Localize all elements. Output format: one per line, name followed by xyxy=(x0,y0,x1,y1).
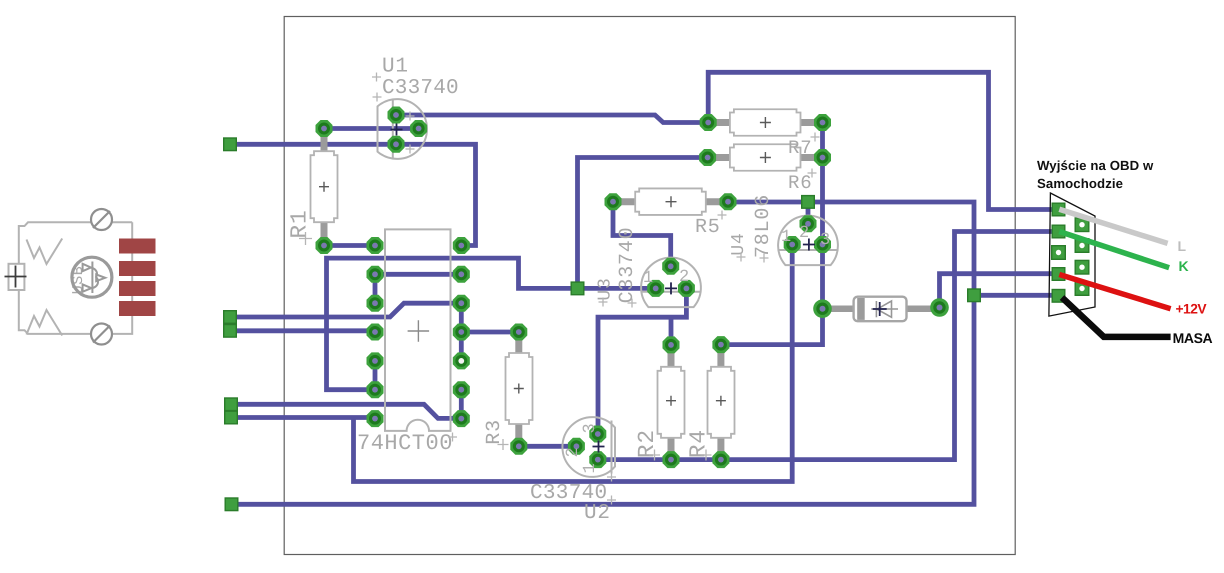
smd square pads node pair lower-left xyxy=(225,398,238,411)
resistor R1 body xyxy=(311,134,338,240)
resistor R7 body xyxy=(712,109,818,136)
pads 74HCT00 left column pins 1-7 xyxy=(367,237,384,254)
smd square pads node pair mid-left xyxy=(224,311,237,324)
wire net K: U2 pin1, R2/R4 bottoms to OBD pin K xyxy=(598,232,1059,460)
wire 74HCT00 right rows3-5 xyxy=(459,303,464,361)
U2 pin numbers xyxy=(564,422,600,473)
wire net L: U1 pin1 to R7 left, up over top to OBD pin L xyxy=(396,72,1059,209)
pad U2 pin2 xyxy=(568,438,585,455)
origin R5 xyxy=(666,196,677,207)
wire K (green) xyxy=(1059,232,1169,268)
diode D1 body xyxy=(826,297,935,322)
pad D1 anode xyxy=(813,299,832,318)
wire MASA (black) xyxy=(1062,298,1171,337)
USB shield tab xyxy=(9,264,25,290)
wire net R6-left to mid square pad xyxy=(578,158,708,289)
pad R3 bottom xyxy=(510,438,527,455)
smd square pad node USB-D- xyxy=(224,138,237,151)
pad U2 pin1 xyxy=(589,451,606,468)
svg-text:1: 1 xyxy=(781,228,792,247)
wire 74HCT00 left rows5-6 xyxy=(373,361,378,390)
svg-text:74HCT00: 74HCT00 xyxy=(357,431,453,456)
pad R6 left xyxy=(699,149,716,166)
svg-text:R1: R1 xyxy=(287,209,313,238)
origin U1 xyxy=(391,124,403,136)
U4 pin numbers xyxy=(781,224,831,250)
pad U3 pin1 xyxy=(647,280,664,297)
pad U4 pin3 xyxy=(814,236,831,253)
pad U2 pin3 xyxy=(589,426,606,443)
wire square pad to 74HCT00 left row4 xyxy=(230,328,375,333)
resistor R3 body xyxy=(506,336,533,441)
small text-anchor crosses (light gray) xyxy=(299,73,820,505)
resistor R2 body xyxy=(658,350,685,454)
svg-text:1: 1 xyxy=(643,269,654,288)
wire +12V (red) xyxy=(1059,275,1170,309)
OBD header pads left column xyxy=(1052,203,1065,216)
wire 74HCT00 right rows6-7 xyxy=(459,390,464,419)
origin R1 xyxy=(319,182,329,192)
smd square pad node gate-mid xyxy=(571,282,584,295)
origin D1 xyxy=(873,302,887,316)
transistor U1 outline (TO-92 flat left) xyxy=(378,99,427,159)
svg-text:C33740: C33740 xyxy=(382,77,459,100)
smd square pad node GND right xyxy=(968,289,981,302)
USB pad 4 xyxy=(119,301,156,316)
smd square pad node GND left xyxy=(225,498,238,511)
USB pad 2 xyxy=(119,261,156,276)
pad U1 pin3 xyxy=(388,136,405,153)
resistor R6 body xyxy=(712,144,818,171)
pad R7 left xyxy=(700,114,717,131)
COMPONENT SILKSCREEN xyxy=(311,99,936,477)
USB pad 3 xyxy=(119,281,156,296)
wire net MASA: square pad along bottom, up right side to R5 right xyxy=(232,202,1059,504)
svg-text:U2: U2 xyxy=(584,502,611,525)
wire diode cathode to OBD +12V pin xyxy=(940,274,1059,308)
wire R5 left to U3 pin2 xyxy=(613,202,671,267)
smd square pad node U4-in xyxy=(802,196,815,209)
origin R4 xyxy=(716,396,726,406)
pad R1 top xyxy=(316,120,333,137)
wire R1 top to U1 pin2 xyxy=(324,126,419,131)
resistor R5 body xyxy=(617,188,724,215)
USB CONNECTOR FOOTPRINT xyxy=(5,209,156,345)
pad U1 pin2 xyxy=(410,120,427,137)
wire U3 pin3 to R2 top and U2 pin3 xyxy=(598,288,686,434)
svg-text:Wyjście na OBD w: Wyjście na OBD w xyxy=(1037,158,1154,173)
svg-text:2: 2 xyxy=(564,446,583,457)
wire 74HCT00 right row4 to R3 top xyxy=(461,330,519,335)
component origin crosses (gray, resistors and IC) xyxy=(319,117,771,406)
USB silk chevron bottom xyxy=(27,310,63,336)
svg-text:R5: R5 xyxy=(695,216,721,239)
pad R4 bottom xyxy=(712,451,729,468)
IC 74HCT00 outline xyxy=(385,229,451,431)
svg-text:R7: R7 xyxy=(788,137,812,159)
transistor U4 outline (TO-92 flat bottom) xyxy=(778,216,838,265)
pad R5 left xyxy=(605,193,622,210)
wire net 12V rail: R4 top up through diode anode, U4 pin3, R6/R7 right xyxy=(721,123,823,345)
USB connector body outline xyxy=(19,222,132,334)
title text xyxy=(1037,158,1154,191)
USB pad 1 xyxy=(119,239,156,254)
svg-text:+12V: +12V xyxy=(1176,302,1208,317)
transistor U2 outline (TO-92 flat right) xyxy=(562,417,615,477)
svg-text:Samochodzie: Samochodzie xyxy=(1037,176,1123,191)
origin R7 xyxy=(760,117,771,128)
USB mounting hole top xyxy=(91,209,112,230)
OBD connector outline xyxy=(1049,193,1095,316)
pad R7 right xyxy=(814,114,831,131)
pad R3 top xyxy=(510,324,527,341)
origin U3 xyxy=(665,282,677,294)
U3 pin numbers xyxy=(643,268,690,288)
origin R3 xyxy=(514,384,524,394)
TRACES xyxy=(230,72,1059,504)
pad R2 bottom xyxy=(663,451,680,468)
pad D1 cathode xyxy=(930,298,949,317)
svg-text:K: K xyxy=(1179,258,1189,274)
svg-text:R2: R2 xyxy=(634,429,660,458)
svg-text:78L06: 78L06 xyxy=(752,194,775,258)
pad R1 bottom xyxy=(316,237,333,254)
pad U4 pin1 xyxy=(784,236,801,253)
svg-text:3: 3 xyxy=(820,231,831,250)
wire square pad to 74HCT00 right row3 xyxy=(230,303,461,317)
svg-text:3: 3 xyxy=(581,422,600,433)
origin 74HCT00 (large) xyxy=(408,320,430,342)
svg-text:U3: U3 xyxy=(596,277,616,300)
pad U4 pin2 xyxy=(800,215,817,232)
USB silk chevron top xyxy=(27,239,63,265)
svg-text:2: 2 xyxy=(679,268,690,287)
origin R2 xyxy=(666,396,676,406)
OBD CONNECTOR AREA xyxy=(1037,158,1213,346)
transistor U3 outline (TO-92 flat bottom) xyxy=(641,258,701,307)
USB logo xyxy=(72,257,112,297)
pad R2 top xyxy=(663,336,680,353)
wire net: square pads to 74HCT00 left row7 and up to U4 pin1 xyxy=(230,245,792,482)
wire net gate: 74HCT00 left row6 elbow up and across to U3 pin1 xyxy=(327,258,656,390)
component origin crosses (dark) xyxy=(391,124,887,453)
svg-text:U4: U4 xyxy=(729,232,749,255)
pad U1 pin1 xyxy=(388,107,405,124)
USB origin cross xyxy=(5,266,27,288)
board outline xyxy=(284,17,1015,555)
wire R1 bottom to 74HCT00 pin1 left xyxy=(324,243,375,248)
pad R5 right xyxy=(720,193,737,210)
OBD header pads right column xyxy=(1075,218,1089,232)
pads 74HCT00 right column pins 8-14 xyxy=(453,237,470,254)
pad U3 pin2 xyxy=(662,258,679,275)
pad R6 right xyxy=(814,149,831,166)
wire net: square pad to 74HCT00 right row7 xyxy=(231,404,461,418)
svg-text:R6: R6 xyxy=(788,172,812,194)
svg-text:MASA: MASA xyxy=(1173,330,1213,346)
wire R3 bottom to U2 pin2 xyxy=(519,444,577,449)
origin U2 xyxy=(593,441,605,453)
origin R6 xyxy=(760,152,771,163)
wire net USB-D+ : square pad to U1 pin3 to 74HCT00 pin1 right xyxy=(230,144,476,245)
wire L (gray) xyxy=(1059,209,1167,243)
pad R4 top xyxy=(712,336,729,353)
resistor R4 body xyxy=(708,350,735,453)
USB mounting hole bottom xyxy=(91,324,112,345)
pad U3 pin3 xyxy=(678,280,695,297)
svg-text:1: 1 xyxy=(581,462,600,473)
SILK TEXT LABELS xyxy=(287,56,832,526)
wire 74HCT00 row2 internal + left row2-row3 xyxy=(375,274,461,303)
origin U4 xyxy=(803,239,815,251)
svg-text:C33740: C33740 xyxy=(616,227,639,304)
svg-text:R4: R4 xyxy=(686,429,712,458)
svg-text:L: L xyxy=(1178,238,1187,254)
svg-text:U1: U1 xyxy=(382,56,409,79)
